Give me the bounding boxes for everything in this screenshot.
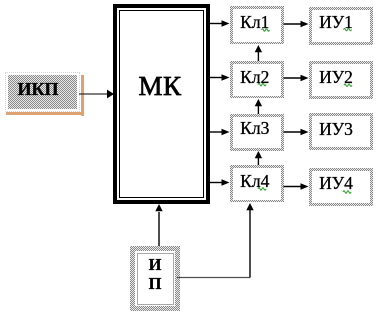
wire Kl2 to IU2: [284, 77, 302, 79]
wire MK to Kl4: [210, 182, 222, 184]
label ИУ3: [304, 121, 368, 139]
block Kl1 (Кл1): [230, 6, 284, 44]
label ИКП: [18, 80, 59, 98]
wire MK to Kl2: [210, 77, 222, 79]
wire Kl2 to Kl1: [257, 52, 259, 61]
block IU2 (ИУ2): [309, 61, 373, 99]
block IKP shadow bottom bar: [6, 112, 84, 115]
label Кл4: [228, 173, 282, 191]
block IKP shadow right bar: [81, 75, 84, 116]
block IKP (ИКП) dashed outline: [5, 72, 80, 113]
arrowhead IKP to MK: [107, 90, 114, 99]
block IU3 (ИУ3): [309, 113, 373, 150]
arrowhead IP to Kl4: [246, 203, 253, 210]
arrowhead Kl3 to IU3: [301, 129, 309, 135]
label Кл2: [228, 69, 282, 87]
block Kl3 (Кл3): [230, 114, 284, 151]
arrowhead MK to Kl4: [222, 179, 230, 185]
label Кл3: [228, 120, 282, 138]
wire Kl1 to IU1: [284, 23, 302, 25]
wire Kl3 to Kl2: [257, 106, 259, 114]
arrowhead Kl1 to IU1: [301, 21, 309, 27]
spellcheck squiggle IU4: [343, 191, 351, 193]
spellcheck squiggle Kl4: [258, 188, 266, 190]
arrowhead MK to Kl2: [222, 74, 230, 80]
arrowhead Kl3 to Kl2: [255, 99, 262, 106]
block Kl4 (Кл4): [230, 165, 284, 202]
label ИУ4: [304, 175, 368, 193]
label Кл1: [228, 14, 282, 32]
wire IP to MK: [158, 212, 160, 246]
wire Kl4 to Kl3: [257, 158, 259, 165]
wire IP to Kl4 horizontal: [177, 277, 250, 279]
arrowhead IP to MK: [155, 204, 162, 211]
label ИУ2: [304, 69, 368, 87]
wire Kl4 to IU4: [284, 186, 302, 188]
label И П: [130, 256, 180, 293]
arrowhead Kl2 to IU2: [301, 75, 309, 81]
arrowhead MK to Kl3: [222, 129, 230, 135]
wire MK to Kl3: [210, 131, 222, 133]
block IP (И П): [130, 246, 180, 311]
wire Kl3 to IU3: [284, 131, 302, 133]
block IU1 (ИУ1): [309, 7, 373, 45]
spellcheck squiggle IU2: [344, 84, 352, 86]
arrowhead Kl2 to Kl1: [255, 45, 262, 52]
block IKP grey pattern fill: [8, 75, 77, 109]
wire IKP to MK: [79, 93, 107, 95]
wire IP to Kl4 vertical: [249, 210, 251, 278]
spellcheck squiggle Kl2: [258, 83, 266, 85]
spellcheck squiggle Kl1: [262, 29, 270, 31]
wire MK to Kl1: [210, 23, 222, 25]
label ИУ1: [304, 14, 368, 32]
block MK (МК) outer double border: [113, 4, 210, 204]
arrowhead MK to Kl1: [222, 20, 230, 26]
spellcheck squiggle IU1: [344, 28, 352, 30]
arrowhead Kl4 to Kl3: [255, 151, 262, 158]
arrowhead Kl4 to IU4: [301, 183, 309, 189]
label МК: [112, 73, 209, 100]
block IU4 (ИУ4): [309, 168, 373, 206]
block Kl2 (Кл2): [230, 61, 284, 98]
